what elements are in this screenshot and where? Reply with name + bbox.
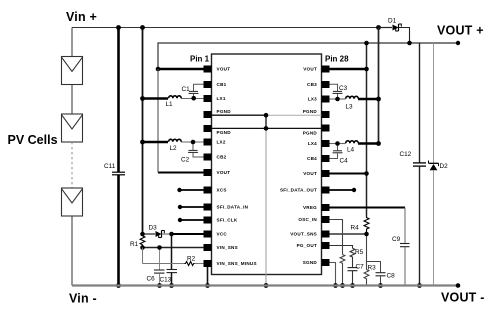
pin 8 VOUT (left) bbox=[204, 169, 231, 176]
svg-text:Pin 28: Pin 28 bbox=[325, 55, 349, 64]
inductor L4 bbox=[346, 141, 359, 154]
wire VCC stub bbox=[172, 233, 204, 235]
PV cell 2 bbox=[62, 114, 83, 142]
pin 25 PGND (right) bbox=[303, 109, 330, 118]
pin 22 CB4 (right) bbox=[307, 155, 329, 162]
pin 24 PGND (right) bbox=[303, 125, 330, 136]
svg-text:VOUT_SNS: VOUT_SNS bbox=[290, 232, 317, 237]
svg-text:CB4: CB4 bbox=[307, 156, 317, 161]
svg-text:VREG: VREG bbox=[303, 205, 317, 210]
resistor Rosc on OSC_IN bbox=[330, 220, 345, 287]
svg-text:VOUT: VOUT bbox=[303, 171, 317, 176]
inductor L2 bbox=[169, 139, 182, 152]
wire between cell1 cell2 bbox=[71, 85, 73, 115]
svg-text:SFI_DATA_IN: SFI_DATA_IN bbox=[217, 205, 249, 210]
resistor R1 bbox=[130, 235, 145, 248]
node junction VOUT pin28 bbox=[364, 67, 369, 72]
svg-text:VOUT -: VOUT - bbox=[441, 291, 485, 305]
svg-text:VOUT: VOUT bbox=[217, 67, 231, 72]
node junction VOUT rail drop bbox=[364, 41, 369, 46]
svg-text:R5: R5 bbox=[355, 249, 364, 256]
wire PGND internal top bbox=[212, 114, 322, 116]
svg-text:L1: L1 bbox=[166, 101, 174, 108]
node junction C13 / ground rail bbox=[169, 283, 174, 288]
wire ground rail bbox=[72, 284, 458, 286]
svg-text:LX4: LX4 bbox=[308, 141, 317, 146]
pin 27 CB3 (right) bbox=[307, 81, 329, 88]
capacitor C1 bbox=[182, 84, 204, 98]
diode D1 bbox=[379, 18, 410, 44]
svg-text:VIN_SNS: VIN_SNS bbox=[217, 245, 238, 250]
svg-text:D1: D1 bbox=[388, 18, 397, 25]
node ground rail end bbox=[456, 283, 461, 288]
svg-text:SGND: SGND bbox=[303, 260, 318, 265]
node XCS open end bbox=[177, 188, 181, 192]
IC U1 body bbox=[212, 54, 322, 275]
svg-text:OSC_IN: OSC_IN bbox=[298, 217, 317, 222]
svg-text:C7: C7 bbox=[356, 264, 365, 271]
wire PGND internal vertical bbox=[265, 115, 267, 285]
wire PV chain top bbox=[71, 28, 73, 57]
wire Vin+ top rail bbox=[72, 27, 379, 29]
pin 18 OSC_IN (right) bbox=[298, 216, 329, 223]
svg-text:LX2: LX2 bbox=[217, 140, 226, 145]
node junction C6 / VIN_SNS bbox=[157, 245, 162, 250]
svg-text:R2: R2 bbox=[187, 256, 196, 263]
node junction R4 / VOUT_SNS bbox=[364, 232, 369, 237]
pin 14 VIN_SNS_MINUS (left) bbox=[204, 260, 257, 267]
pin 19 VREG (right) bbox=[303, 204, 330, 211]
svg-text:VOUT: VOUT bbox=[303, 67, 317, 72]
svg-text:Pin 1: Pin 1 bbox=[190, 55, 210, 64]
svg-text:XCS: XCS bbox=[217, 188, 227, 193]
wire VOUT rail bbox=[158, 43, 458, 69]
svg-text:C4: C4 bbox=[340, 158, 349, 165]
node junction top rail / L3 L4 feed bbox=[376, 25, 381, 30]
svg-text:PV Cells: PV Cells bbox=[8, 133, 58, 147]
pin 6 LX2 (left) bbox=[204, 139, 226, 146]
svg-text:CB2: CB2 bbox=[217, 155, 227, 160]
wire XCS stub bbox=[180, 189, 204, 191]
resistor R4 bbox=[351, 217, 370, 233]
pin 2 CB1 (left) bbox=[204, 81, 227, 88]
wire VOUT_SNS stub bbox=[330, 233, 367, 235]
node junction VOUT rail / pin1 bbox=[156, 67, 161, 72]
wire SGND to ground bbox=[330, 263, 336, 286]
node junction PGND bottom bbox=[264, 126, 269, 131]
pin 10 SFI_DATA_IN (left) bbox=[204, 204, 249, 211]
svg-text:C12: C12 bbox=[400, 151, 412, 158]
node junction C4 / LX4 bbox=[335, 141, 340, 146]
svg-text:R1: R1 bbox=[130, 241, 139, 248]
svg-text:VIN_SNS_MINUS: VIN_SNS_MINUS bbox=[217, 261, 257, 266]
node junction C11 / Vin- rail bbox=[116, 283, 121, 288]
node junction VIN_SNS_MINUS / ground rail bbox=[205, 283, 210, 288]
node VOUT rail end bbox=[456, 41, 460, 45]
wire dashed PV chain bbox=[71, 142, 73, 188]
svg-text:C11: C11 bbox=[104, 163, 116, 170]
svg-text:R3: R3 bbox=[368, 265, 377, 272]
node junction feed rail / D3 bbox=[140, 232, 145, 237]
pin 11 SFI_CLK (left) bbox=[204, 217, 238, 224]
svg-text:D2: D2 bbox=[440, 163, 449, 170]
diode D2 bbox=[429, 43, 449, 286]
node junction PGND top bbox=[264, 113, 269, 118]
node junction Rosc / ground rail bbox=[340, 283, 345, 288]
pin 20 SFI_DATA_OUT (right) bbox=[280, 187, 330, 194]
svg-text:CB3: CB3 bbox=[307, 82, 317, 87]
node junction L3 / feed drop bbox=[376, 97, 381, 102]
capacitor C8 bbox=[367, 262, 396, 286]
svg-text:C8: C8 bbox=[387, 273, 396, 280]
wire LX1 row bbox=[143, 97, 204, 99]
svg-text:C3: C3 bbox=[339, 85, 348, 92]
svg-text:PGND: PGND bbox=[303, 130, 318, 135]
diode D3 bbox=[143, 225, 172, 238]
pin 13 VIN_SNS (left) bbox=[204, 244, 238, 251]
pin 23 LX4 (right) bbox=[308, 140, 330, 147]
node SFI_CLK open end bbox=[178, 218, 182, 222]
node junction Vin+ / C11 bbox=[116, 25, 121, 30]
node junction C1 / LX1 bbox=[191, 96, 196, 101]
svg-text:CB1: CB1 bbox=[217, 82, 227, 87]
wire SFI_DATA_OUT stub bbox=[330, 189, 355, 191]
capacitor C7 bbox=[348, 260, 365, 286]
pin 15 SGND (right) bbox=[303, 259, 330, 266]
svg-text:C6: C6 bbox=[147, 276, 156, 283]
wire input cap branch bbox=[117, 28, 120, 173]
pin 7 CB2 (left) bbox=[204, 154, 227, 161]
wire L3 L4 feed drop bbox=[378, 28, 380, 144]
pin 3 LX1 (left) bbox=[204, 95, 226, 102]
node junction top rail / feed rail bbox=[140, 25, 145, 30]
capacitor C11 bbox=[104, 163, 125, 175]
svg-text:SFI_CLK: SFI_CLK bbox=[217, 218, 238, 223]
wire SFI_CLK stub bbox=[180, 219, 204, 221]
node junction C2 / LX2 bbox=[191, 140, 196, 145]
svg-text:L3: L3 bbox=[346, 104, 354, 111]
wire VOUT left drop bbox=[157, 69, 159, 173]
wire PV chain bottom bbox=[71, 216, 73, 286]
node junction L4 / feed drop bbox=[376, 141, 381, 146]
capacitor C12 bbox=[400, 43, 427, 286]
wire VOUT pin21 stub bbox=[330, 173, 367, 175]
PV cell 1 bbox=[62, 57, 83, 85]
svg-text:C13: C13 bbox=[160, 277, 172, 284]
pin 26 LX3 (right) bbox=[308, 96, 330, 103]
node junction C7 / ground rail bbox=[350, 283, 355, 288]
pin 28 VOUT (right) bbox=[303, 66, 329, 73]
wire SFI_DATA_IN stub bbox=[180, 206, 204, 208]
svg-text:LX3: LX3 bbox=[308, 97, 317, 102]
wire VREG stub bbox=[330, 207, 406, 209]
wire LX3 row bbox=[330, 98, 379, 100]
pin 16 PG_OUT (right) bbox=[297, 242, 330, 249]
wire LX2 row bbox=[143, 141, 204, 143]
pin 17 VOUT_SNS (right) bbox=[290, 231, 329, 238]
svg-text:C9: C9 bbox=[392, 236, 401, 243]
node junction VOUT pin21 bbox=[364, 171, 369, 176]
svg-text:D3: D3 bbox=[149, 225, 158, 232]
pin 1 VOUT (left) bbox=[204, 66, 231, 73]
svg-text:PGND: PGND bbox=[217, 109, 232, 114]
wire VOUT pin1 stub bbox=[158, 68, 204, 70]
pin 5 PGND (left) bbox=[204, 125, 232, 135]
svg-text:SFI_DATA_OUT: SFI_DATA_OUT bbox=[280, 188, 317, 193]
node junction PGND to ground rail bbox=[264, 283, 269, 288]
node junction C8 / ground rail bbox=[378, 283, 383, 288]
svg-text:Vin +: Vin + bbox=[66, 10, 97, 24]
svg-text:Vin -: Vin - bbox=[69, 292, 97, 306]
capacitor C2 bbox=[181, 142, 204, 164]
wire VOUT pin28 stub bbox=[330, 68, 367, 70]
svg-text:LX1: LX1 bbox=[217, 96, 226, 101]
resistor R2 bbox=[143, 248, 204, 266]
wire input cap branch lower bbox=[117, 175, 120, 286]
inductor L3 bbox=[346, 96, 359, 110]
svg-text:PGND: PGND bbox=[303, 109, 318, 114]
node junction C6 / ground rail bbox=[157, 283, 162, 288]
pin 9 XCS (left) bbox=[204, 187, 227, 194]
svg-text:PGND: PGND bbox=[217, 130, 232, 135]
wire PGND internal bottom bbox=[212, 127, 322, 129]
wire LX4 row bbox=[330, 143, 379, 145]
svg-text:C1: C1 bbox=[182, 86, 191, 93]
node junction D1 / VOUT rail bbox=[407, 41, 412, 46]
svg-text:VCC: VCC bbox=[217, 232, 228, 237]
resistor R5 bbox=[330, 246, 364, 260]
capacitor C13 bbox=[160, 234, 178, 286]
node junction D3 / VCC / C13 bbox=[169, 232, 174, 237]
node junction Vin+ rail / L2 bbox=[140, 140, 145, 145]
svg-text:VOUT +: VOUT + bbox=[437, 24, 484, 38]
node SFI_DATA_IN open end bbox=[178, 205, 182, 209]
inductor L1 bbox=[166, 96, 182, 108]
capacitor C9 bbox=[392, 208, 410, 286]
node junction Vin+ rail / L1 bbox=[140, 96, 145, 101]
resistor R3 bbox=[364, 262, 376, 286]
svg-text:PG_OUT: PG_OUT bbox=[297, 243, 317, 248]
wire VOUT right drop bbox=[366, 43, 368, 262]
svg-text:L4: L4 bbox=[347, 147, 355, 154]
capacitor C4 bbox=[330, 144, 349, 165]
node junction C12 / ground rail bbox=[417, 283, 422, 288]
capacitor C6 bbox=[147, 248, 165, 286]
svg-text:VOUT: VOUT bbox=[217, 170, 231, 175]
svg-text:R4: R4 bbox=[351, 225, 360, 232]
wire VOUT pin8 stub bbox=[158, 172, 204, 174]
capacitor C3 bbox=[330, 84, 348, 99]
pin 21 VOUT (right) bbox=[303, 170, 329, 177]
node junction SGND / ground rail bbox=[333, 283, 338, 288]
wire Vin+ inductor feed rail bbox=[142, 28, 144, 236]
wire VIN_SNS row bbox=[143, 247, 204, 249]
wire VIN_SNS_MINUS to ground bbox=[207, 267, 209, 286]
node junction C3 / LX3 bbox=[335, 97, 340, 102]
svg-text:C2: C2 bbox=[181, 157, 190, 164]
node SFI_DATA_OUT open end bbox=[352, 188, 356, 192]
pin 12 VCC (left) bbox=[204, 231, 228, 238]
svg-text:L2: L2 bbox=[170, 145, 178, 152]
PV cell 3 bbox=[62, 188, 83, 216]
node junction R1 / VIN_SNS bbox=[140, 245, 145, 250]
pin 4 PGND (left) bbox=[204, 109, 232, 118]
